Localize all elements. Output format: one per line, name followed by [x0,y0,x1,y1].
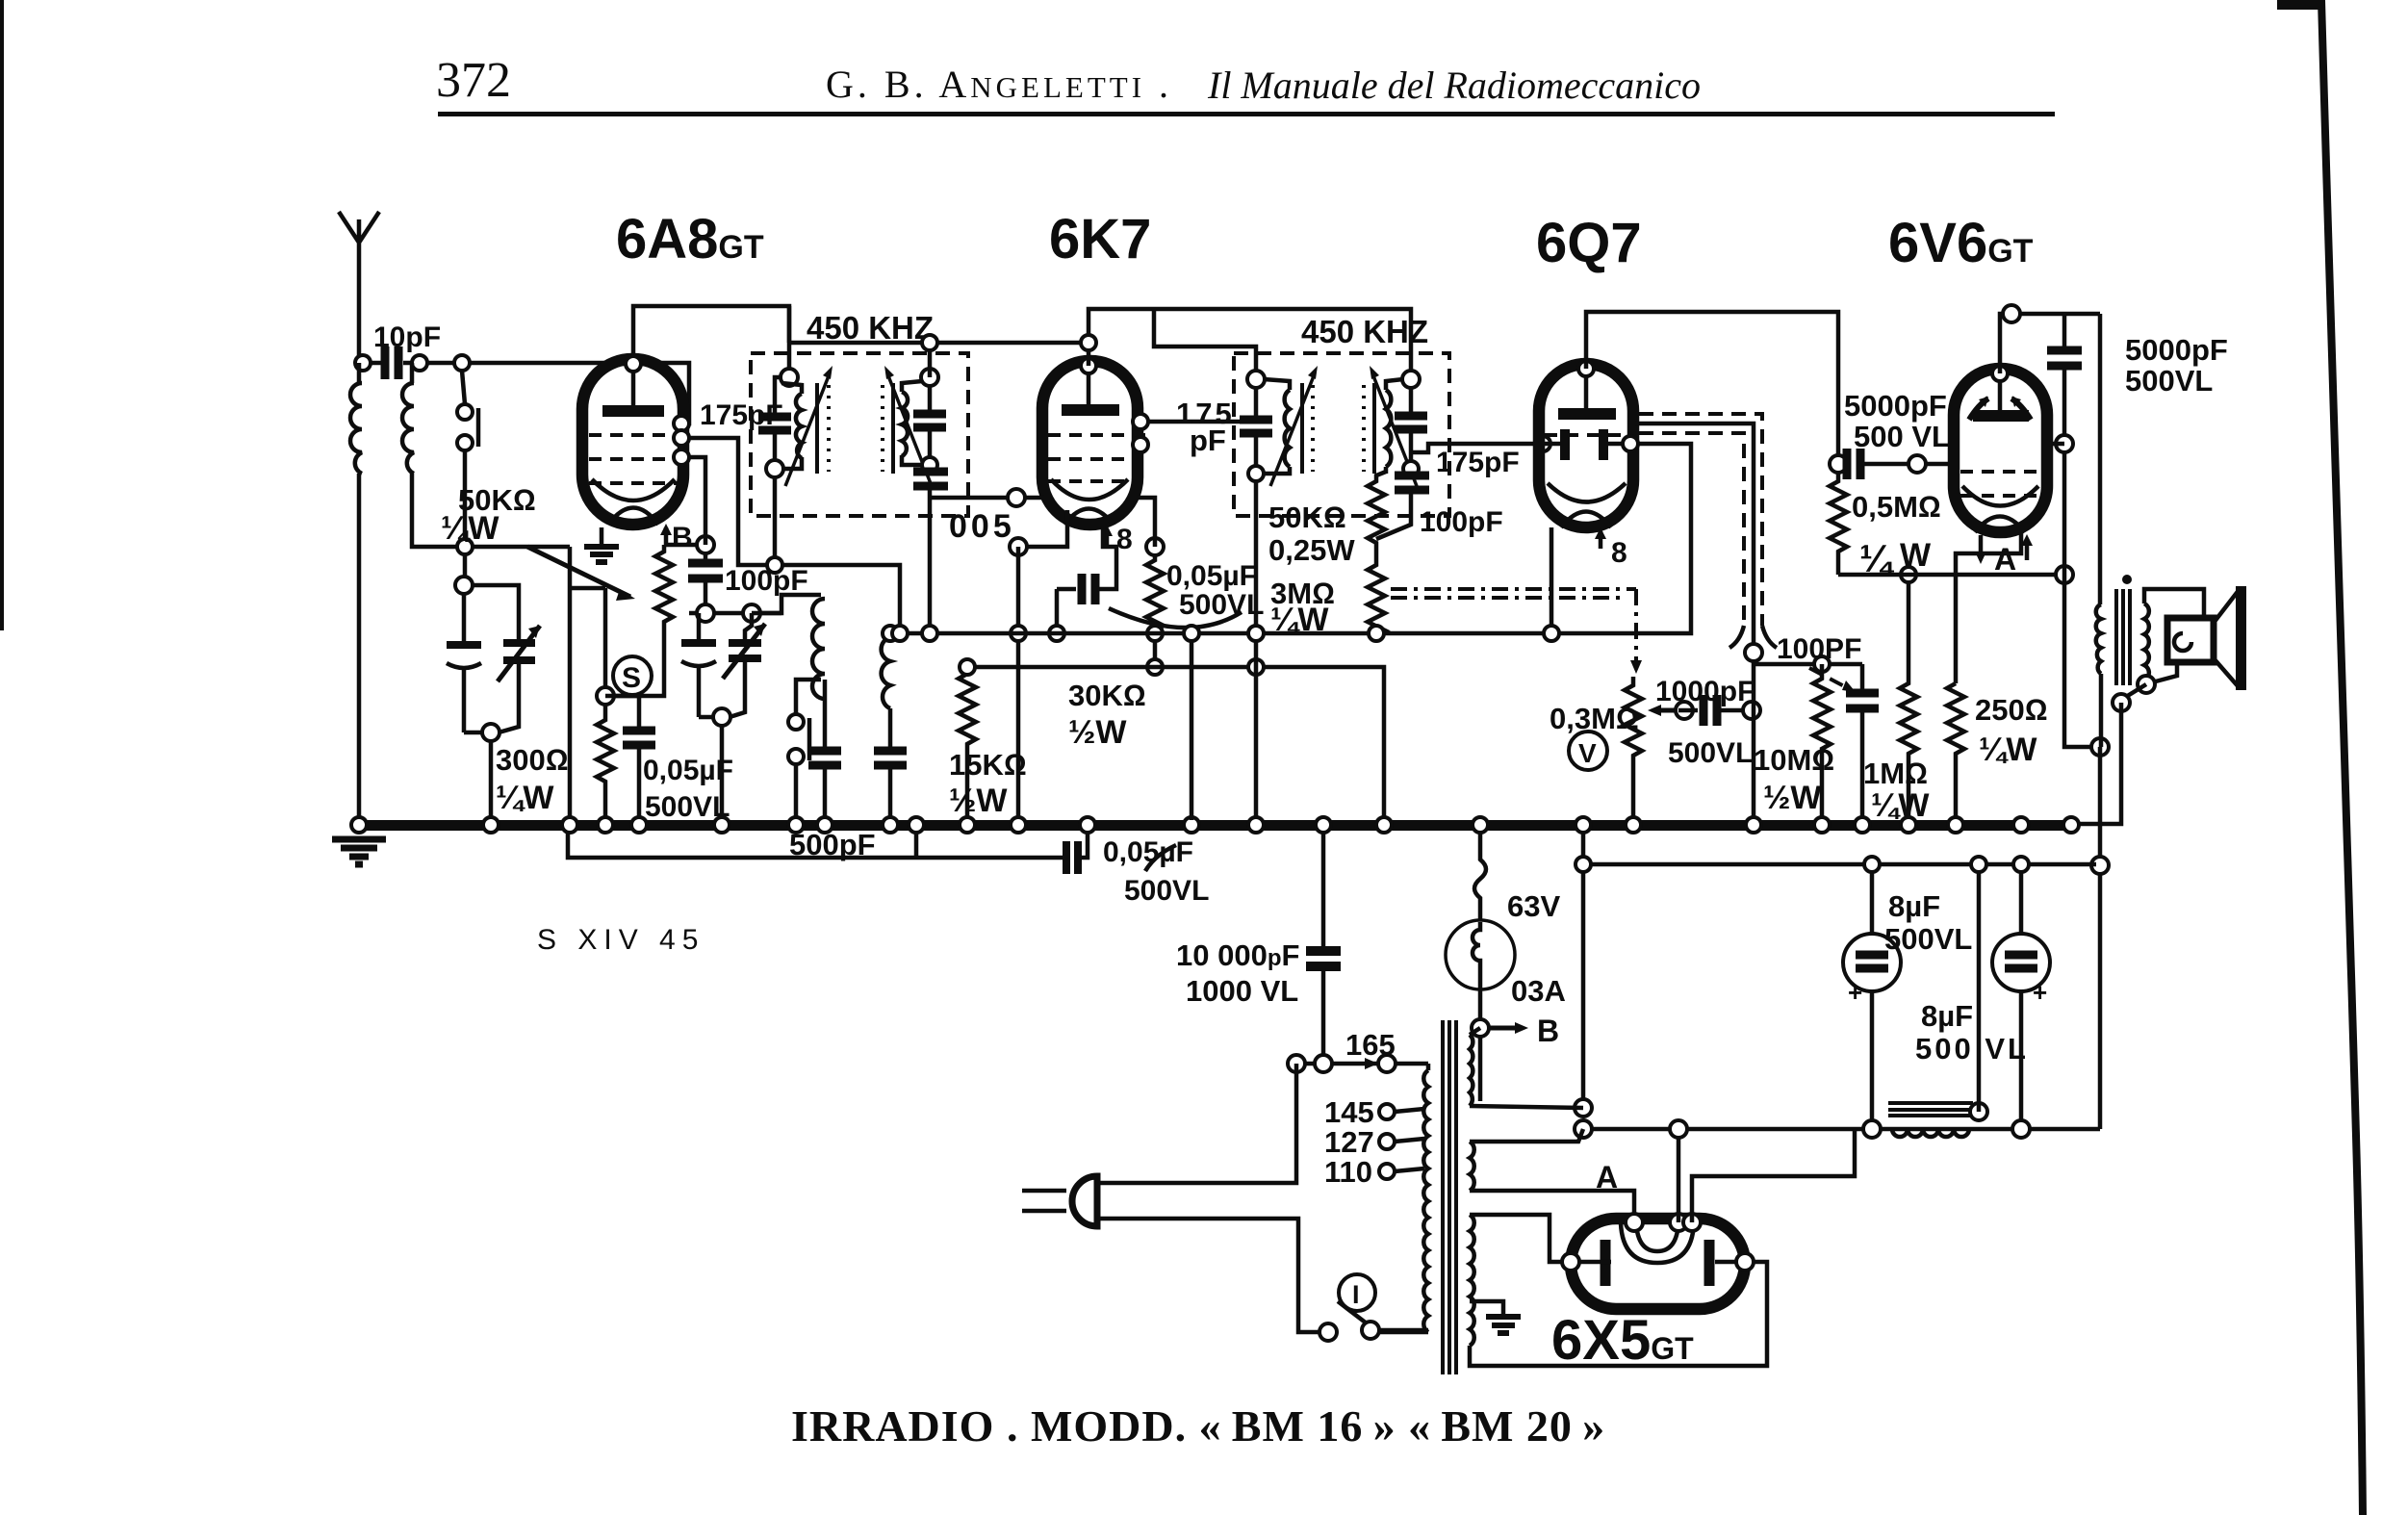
svg-text:450 KHZ: 450 KHZ [1301,314,1428,349]
svg-text:¼W: ¼W [1979,732,2037,768]
tube 6K7 envelope [1042,358,1152,525]
svg-text:0,5MΩ: 0,5MΩ [1852,490,1941,524]
svg-text:0,05µF: 0,05µF [1166,560,1257,592]
capacitor 0,05uF (S line) [605,696,733,823]
svg-text:10MΩ: 10MΩ [1754,743,1834,777]
svg-text:1000 VL: 1000 VL [1186,974,1298,1008]
oscillator tank top wire [689,611,781,616]
svg-text:500VL: 500VL [1884,922,1972,956]
svg-text:8: 8 [1116,524,1133,555]
capacitor 8uF second [1915,857,2050,1129]
svg-text:127: 127 [1324,1125,1374,1159]
6K7 screen feed wire [1154,309,1256,379]
resistor 250 ohm [1947,683,2048,820]
oscillator coil 1 [752,595,841,820]
volume potentiometer 0,3M [1550,677,1693,820]
svg-text:6Q7: 6Q7 [1536,212,1642,274]
6A8 plate top wire to IF1 [633,306,789,377]
resistor 300 ohm lead [489,741,494,820]
mains plug and cord [1022,1064,1319,1332]
svg-text:I: I [1352,1280,1360,1309]
resistor 15K [949,667,1027,820]
svg-text:8µF: 8µF [1888,889,1940,923]
grid return line y597 [1838,573,2064,578]
6K7 cathode wires [930,498,1067,547]
svg-text:0,25W: 0,25W [1268,533,1355,567]
svg-text:A: A [1596,1160,1618,1194]
coupling capacitor 5000pF [1830,389,1952,479]
svg-text:500VL: 500VL [1124,875,1209,907]
svg-text:100pF: 100pF [1420,506,1503,538]
long AF line y658 [890,444,1691,633]
capacitor 5000pF plate [2047,314,2228,575]
node S circle label [613,656,652,695]
svg-text:372: 372 [436,53,511,108]
svg-text:¼W: ¼W [496,780,554,816]
IF1 secondary coil [902,381,922,465]
svg-text:500 VL: 500 VL [1854,420,1950,453]
pin A arrows 6V6 [1975,534,2033,577]
6Q7 top wire to coupling cap [1586,312,1838,464]
svg-text:250Ω: 250Ω [1975,693,2048,727]
antenna [339,212,379,363]
capacitor 1000pF [1655,676,1760,769]
AVC dash-dot lines to volume pot [1391,589,1636,598]
svg-text:¼W: ¼W [441,510,500,547]
svg-text:500VL: 500VL [1668,737,1753,769]
pin B arrow 6A8 [660,522,693,553]
svg-text:+: + [2033,978,2047,1007]
6X5 cathode to B+ [1677,1129,1681,1222]
wire secondary return down [568,547,573,820]
resistor 0,5M grid leak [1830,474,1941,580]
IF2 dashed box [1234,353,1449,516]
tube 6Q7 envelope [1539,361,1633,527]
primary tap row 165 [1288,1028,1428,1072]
page right border (book gutter edge) [2318,0,2367,1515]
tuning capacitor section 1 fixed [447,577,481,732]
antenna coil primary [350,363,362,820]
wire column x592 to x629 [570,588,605,696]
svg-text:300Ω: 300Ω [496,743,569,777]
line y693 [967,667,1384,820]
svg-text:175pF: 175pF [1436,447,1520,478]
svg-text:½W: ½W [1763,780,1822,816]
IF2 secondary coil [1386,379,1403,474]
svg-text:Il Manuale del Radiomeccanico: Il Manuale del Radiomeccanico [1207,64,1701,107]
transformer core [1443,1020,1456,1374]
page left border [0,0,4,630]
6K7 plate wire to IF2 [1138,420,1241,424]
svg-text:10 000pF: 10 000pF [1176,938,1299,972]
IF2 primary cap [1247,371,1265,388]
svg-text:005: 005 [949,508,1015,545]
svg-text:A: A [1994,542,2016,577]
oscillator coil 2 [874,637,907,820]
IF1 secondary top wire to 6K7 grid [789,306,1089,377]
transformer primary winding [1426,1064,1431,1070]
band switch contacts [788,680,821,820]
IF2 tuning arrows [1270,373,1315,486]
svg-text:8: 8 [1611,537,1627,569]
resistor 50K 0,25W [1268,472,1386,567]
shielded AF lead 6Q7 plate to volume network [1635,424,1754,653]
svg-text:63V: 63V [1507,889,1560,923]
svg-text:03A: 03A [1511,974,1566,1008]
svg-text:500 VL: 500 VL [1915,1032,2029,1066]
svg-text:¼W: ¼W [1270,602,1329,638]
output transformer core [2116,589,2130,685]
B arrow takeoff [1472,1014,1559,1048]
6Q7 cathode wire [1550,527,1554,633]
output transformer primary [2096,314,2101,747]
B+ node row at 1647 [1575,1099,1592,1117]
header rule [438,112,2055,116]
IF2 secondary caps 175pF 100pF [1402,371,1420,388]
label 100PF with dashed pointer [1777,633,1861,692]
vertical 1645 bus to B node row [1581,831,1586,1108]
svg-text:+: + [1848,978,1862,1007]
IF1 primary coil [781,383,802,469]
resistor (osc padder) x629 [597,705,614,820]
svg-text:¼W: ¼W [1871,787,1930,824]
svg-text:450 KHZ: 450 KHZ [807,310,934,346]
capacitor 100pF column [1846,664,1879,820]
rectifier filament winding [1470,1215,1767,1366]
B+ line y1173 [1585,1127,2100,1132]
svg-text:B: B [1537,1014,1559,1048]
resistor 3M ohm [1270,558,1385,641]
antenna coil secondary [402,363,570,547]
IF2 core [1302,383,1374,474]
mains switch [1319,1301,1428,1341]
resistor 10M [1754,664,1834,820]
loudspeaker [2079,586,2246,824]
HV secondary winding [1470,1028,1583,1108]
heater secondary winding [1470,1129,1634,1219]
svg-text:30KΩ: 30KΩ [1068,679,1146,712]
wire antenna to switch [427,363,689,424]
wire x1238 column [1190,633,1194,820]
resistor 1M [1863,567,1930,824]
label 50K 1/4W with pointer arrow [441,483,635,601]
svg-text:V: V [1578,738,1597,768]
tube 6A8 envelope [582,359,685,525]
osc tank trimmer cap [699,613,765,820]
6A8 grid wires right side [683,422,689,426]
svg-text:5000pF: 5000pF [1844,389,1947,423]
svg-text:500VL: 500VL [2125,364,2213,398]
line y690 [1754,662,1862,667]
filter choke / field coil [1888,857,1987,1137]
svg-text:½W: ½W [949,783,1008,819]
svg-text:175pF: 175pF [700,399,783,431]
label 0,05uF 500VL with pointer [1109,560,1264,628]
svg-text:15KΩ: 15KΩ [949,748,1027,782]
6K7 top grid wire [1089,309,1411,379]
svg-text:50KΩ: 50KΩ [1268,501,1346,534]
osc tank fixed cap [681,613,716,717]
svg-text:6K7: 6K7 [1049,208,1151,270]
pilot lamp 6.3V 0.3A [1446,831,1566,1101]
6A8 cathode ground [584,527,619,562]
page corner tick top right [2277,0,2323,10]
ground symbol main [332,839,386,864]
IF1 dashed box [751,353,968,516]
svg-text:5000pF: 5000pF [2125,333,2228,367]
svg-text:½W: ½W [1068,714,1127,751]
svg-text:1MΩ: 1MΩ [1863,757,1928,790]
resistor 50K osc grid leak [614,545,673,696]
6X5 heater to A loop [1692,1129,1855,1222]
output transformer secondary [2144,589,2204,685]
taps 145 127 110 [1324,1095,1424,1189]
svg-text:110: 110 [1324,1155,1372,1189]
wire IF2 secondary to 6Q7 diode [1411,444,1541,452]
below-bus 500pF loop [568,828,916,861]
capacitor 10000pF line filter [1176,831,1341,1064]
svg-text:S: S [622,662,641,694]
capacitor 10pF [355,321,441,379]
switch I circle label [1339,1274,1375,1311]
screen wire down to B+ [2064,575,2100,747]
svg-text:pF: pF [1190,424,1226,457]
svg-text:S XIV 45: S XIV 45 [537,924,704,956]
resistor 30K plate load [1068,498,1164,751]
IF1 primary cap 175pF [781,369,798,386]
tube 6X5 envelope [1562,1214,1754,1309]
6V6 plate top wire [2000,314,2100,373]
pin 8 arrow 6K7 [1101,524,1133,555]
tube 6V6 envelope [1954,366,2047,532]
pin 8 arrow 6Q7 [1595,527,1627,569]
V circle meter label [1569,732,1607,770]
svg-text:IRRADIO . MODD. « BM 16 » «: IRRADIO . MODD. « BM 16 » « BM 20 » [791,1401,1605,1451]
tuning capacitor section 1 trimmer [464,585,540,741]
6V6 cathode to 250 ohm [1956,532,2021,683]
svg-text:W: W [1900,537,1932,574]
svg-text:B: B [672,522,693,553]
below-bus 0,05uF link [916,831,1209,907]
wire 1822 column [1752,661,1756,820]
svg-text:8µF: 8µF [1921,999,1973,1033]
coupling capacitor 0,05uF 6K7 plate [1049,527,1116,641]
IF1 core [817,383,893,474]
heater line y898 [1583,862,2096,867]
IF2 primary coil [1264,379,1290,474]
svg-text:500pF: 500pF [789,828,876,861]
IF1 tuning arrows [785,373,830,486]
svg-text:500VL: 500VL [1179,589,1264,621]
IF1 secondary caps [921,369,938,386]
capacitor 8uF first [1843,857,1972,1129]
B+ feed line down right [2098,747,2103,1129]
capacitor 100pF osc grid [688,553,808,613]
wave switch S contacts [457,371,478,578]
bus node circles [351,817,2079,833]
svg-text:145: 145 [1324,1095,1374,1129]
